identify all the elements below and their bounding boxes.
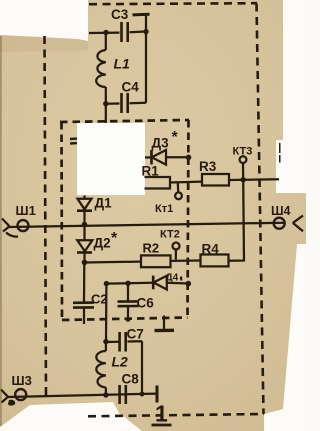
svg-text:С6: С6	[137, 296, 155, 311]
svg-text:R1: R1	[142, 164, 160, 179]
svg-text:Д4: Д4	[166, 273, 179, 284]
svg-text:*: *	[172, 129, 179, 146]
svg-text:Кт1: Кт1	[155, 203, 173, 215]
svg-text:L2: L2	[112, 354, 129, 370]
svg-text:R2: R2	[143, 241, 160, 256]
svg-text:*: *	[111, 230, 118, 247]
svg-text:Ш4: Ш4	[271, 204, 291, 218]
svg-text:R3: R3	[199, 159, 217, 174]
svg-text:1: 1	[155, 401, 168, 427]
svg-text:С3: С3	[111, 7, 129, 22]
svg-text:С2: С2	[91, 292, 108, 307]
svg-text:С7: С7	[127, 327, 144, 342]
svg-text:КТ3: КТ3	[233, 146, 253, 158]
svg-text:С4: С4	[122, 80, 140, 95]
svg-text:Ш1: Ш1	[16, 203, 36, 218]
svg-text:Д2: Д2	[94, 236, 111, 251]
svg-text:Ш3: Ш3	[12, 373, 32, 388]
svg-text:С8: С8	[122, 372, 140, 387]
svg-text:Д3: Д3	[152, 136, 170, 151]
svg-text:L1: L1	[114, 56, 131, 72]
svg-text:КТ2: КТ2	[160, 229, 180, 241]
svg-text:Д1: Д1	[95, 196, 113, 211]
svg-text:R4: R4	[202, 242, 220, 257]
